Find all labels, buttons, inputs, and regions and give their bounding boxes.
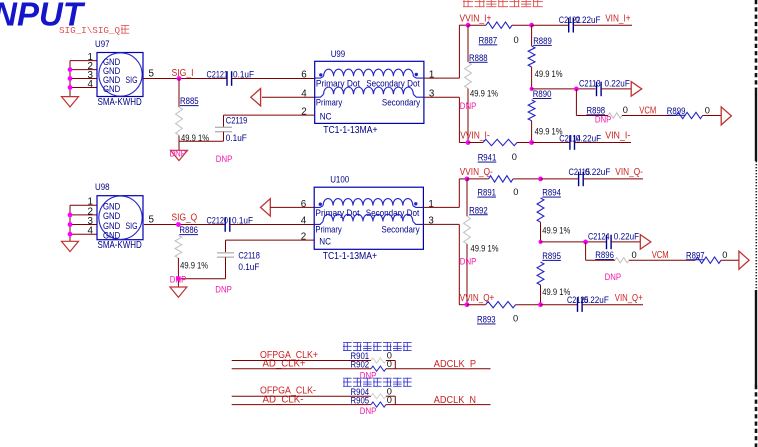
wire pin4 stub xyxy=(70,87,97,89)
wire ADCLK_P xyxy=(386,368,491,370)
note (chinese, cut off at top) xyxy=(463,0,473,7)
svg-text:2: 2 xyxy=(301,232,306,243)
svg-text:GND: GND xyxy=(103,221,121,231)
junction xyxy=(68,67,73,72)
svg-text:5: 5 xyxy=(149,215,155,226)
svg-text:U100: U100 xyxy=(330,175,349,186)
svg-text:0: 0 xyxy=(513,187,518,197)
svg-text:R895: R895 xyxy=(542,251,561,261)
svg-text:SIG_I: SIG_I xyxy=(172,68,194,79)
svg-text:0: 0 xyxy=(513,314,518,324)
node junction R887/R889 xyxy=(529,23,534,28)
svg-text:0.1uF: 0.1uF xyxy=(238,262,259,272)
resistor R887 0 xyxy=(468,22,532,45)
wire pin3 stub xyxy=(70,78,97,80)
junction xyxy=(68,76,73,81)
svg-text:R890: R890 xyxy=(533,89,552,99)
svg-text:49.9 1%: 49.9 1% xyxy=(180,261,208,271)
page border (dashed, right edge) xyxy=(755,0,758,89)
svg-text:C2124: C2124 xyxy=(588,232,610,242)
wire gnd bus xyxy=(69,205,71,241)
resistor R898 0 (DNP) xyxy=(587,105,628,118)
wire R897 to port xyxy=(721,259,739,261)
svg-text:SMA-KWHD: SMA-KWHD xyxy=(98,97,142,108)
resistor R885 49.9 1% (DNP) xyxy=(176,79,209,151)
node C2113 branch junction xyxy=(574,87,579,92)
wire bracket join xyxy=(394,396,396,404)
svg-text:R885: R885 xyxy=(180,96,199,106)
wire VIN_Q- xyxy=(583,178,643,180)
svg-text:DNP: DNP xyxy=(605,272,622,283)
node C2124 branch junction xyxy=(583,240,588,245)
body box xyxy=(97,53,143,97)
svg-text:0.22uF: 0.22uF xyxy=(584,295,610,305)
svg-text:6: 6 xyxy=(301,70,307,81)
wire VVIN_I+ to C2122 xyxy=(532,24,569,26)
wire SIG_I xyxy=(143,78,227,80)
svg-text:1: 1 xyxy=(428,199,433,210)
svg-text:0.22uF: 0.22uF xyxy=(605,79,631,89)
wire AD_CLK- xyxy=(232,404,371,406)
svg-text:R897: R897 xyxy=(686,250,705,260)
polarity dot left xyxy=(319,73,322,76)
svg-text:5: 5 xyxy=(149,69,155,80)
wire pin3 stub xyxy=(70,224,97,226)
resistor R901 0 (DNP) xyxy=(351,351,392,363)
svg-text:0: 0 xyxy=(512,152,517,162)
wire arrow to U99 pin4 xyxy=(262,96,315,98)
capacitor C2119 0.1uF (DNP shunt) xyxy=(215,115,247,143)
capacitor C2122 0.22uF xyxy=(568,18,570,33)
svg-text:VIN_I-: VIN_I- xyxy=(605,131,630,142)
svg-text:GND: GND xyxy=(103,231,121,241)
port arrow C2113 xyxy=(631,82,642,97)
wire OFPGA_CLK- xyxy=(232,395,371,397)
body box xyxy=(97,196,143,240)
junction xyxy=(68,222,73,227)
resistor R888 49.9 1% (DNP shunt) xyxy=(465,25,498,142)
junction xyxy=(68,85,73,90)
capacitor C2113 0.22uF xyxy=(596,82,598,97)
svg-text:DNP: DNP xyxy=(460,101,477,112)
capacitor C2124 0.22uF xyxy=(606,235,608,250)
note chinese (three stacked resistors) xyxy=(343,342,352,351)
svg-text:GND: GND xyxy=(103,211,121,221)
svg-text:3: 3 xyxy=(429,88,435,99)
node junction R895/VVIN_Q+ xyxy=(538,302,543,307)
wire R899 to port xyxy=(703,115,722,117)
capacitor C2121 0.1uF xyxy=(226,71,228,86)
svg-text:R888: R888 xyxy=(469,53,488,63)
node VVIN_Q- junction xyxy=(465,177,470,182)
wire ADCLK_N xyxy=(386,404,491,406)
node junction R891/R894 xyxy=(538,177,543,182)
svg-text:C2120: C2120 xyxy=(207,216,229,226)
svg-text:DNP: DNP xyxy=(170,149,187,160)
svg-text:VIN_Q-: VIN_Q- xyxy=(615,167,643,178)
resistor R896 0 (DNP) xyxy=(595,250,636,263)
svg-text:SIG: SIG xyxy=(126,221,138,231)
wire VVIN_I- to C2114 xyxy=(532,142,570,144)
resistor R905 0 xyxy=(351,395,392,407)
capacitor C2120 0.1uF xyxy=(224,217,226,232)
ground (DNP) below R886 xyxy=(170,287,187,297)
resistor R891 0 xyxy=(467,176,541,198)
svg-text:R892: R892 xyxy=(469,205,488,215)
wire C2113 to port xyxy=(601,88,631,90)
svg-text:C2121: C2121 xyxy=(207,70,229,80)
wire VCM branch I xyxy=(575,89,577,116)
wire R901 to bracket xyxy=(386,360,395,362)
winding bottom xyxy=(323,214,413,221)
wire R885 bottom to C2119 xyxy=(179,140,224,142)
svg-text:R905: R905 xyxy=(351,396,370,406)
resistor R941 0 xyxy=(468,139,532,162)
wire R886 bottom to C2118 xyxy=(178,278,225,280)
svg-text:U98: U98 xyxy=(95,182,110,193)
resistor R886 49.9 1% (DNP) xyxy=(175,225,208,287)
svg-text:DNP: DNP xyxy=(215,284,232,295)
svg-text:DNP: DNP xyxy=(216,154,233,165)
svg-text:4: 4 xyxy=(301,88,307,99)
wire C2121 to U99 pin6 xyxy=(232,78,315,80)
body box xyxy=(315,61,424,123)
port arrow VCM I xyxy=(721,107,731,125)
svg-text:6: 6 xyxy=(301,199,307,210)
svg-text:49.9 1%: 49.9 1% xyxy=(470,89,498,99)
resistor R894 49.9 1% xyxy=(537,188,570,242)
resistor R897 0 xyxy=(686,250,727,263)
svg-text:R894: R894 xyxy=(542,188,561,198)
resistor R895 49.9 1% xyxy=(537,251,570,305)
svg-text:R941: R941 xyxy=(478,153,497,163)
wire mid to C2113 xyxy=(532,88,596,90)
svg-text:NC: NC xyxy=(320,111,332,121)
svg-text:0: 0 xyxy=(623,105,628,115)
node SIG_Q junction xyxy=(176,222,181,227)
wire VVIN_Q- to C2115 xyxy=(541,178,579,180)
resistor R889 49.9 1% xyxy=(528,25,562,89)
wire VCM branch Q xyxy=(585,242,587,260)
svg-text:Secondary: Secondary xyxy=(382,98,420,108)
svg-text:0: 0 xyxy=(387,395,392,405)
svg-text:R891: R891 xyxy=(477,188,496,198)
svg-text:0.22uF: 0.22uF xyxy=(614,232,640,242)
svg-text:0: 0 xyxy=(514,35,519,45)
svg-text:0: 0 xyxy=(632,250,637,260)
wire C2120 to U100 pin4 xyxy=(230,224,314,226)
port arrow into U100 pin6 xyxy=(261,199,271,216)
wire gnd bus xyxy=(69,61,71,97)
svg-text:4: 4 xyxy=(88,79,94,90)
wire pin1 stub xyxy=(70,60,97,62)
svg-text:0.22uF: 0.22uF xyxy=(575,15,601,25)
resistor R890 49.9 1% xyxy=(528,89,562,143)
wire arrow to U100 pin6 xyxy=(270,206,314,208)
node junction R890/VVIN_I- xyxy=(529,140,534,145)
svg-text:TC1-1-13MA+: TC1-1-13MA+ xyxy=(323,251,378,262)
svg-text:0.1uF: 0.1uF xyxy=(226,133,247,143)
svg-text:GND: GND xyxy=(103,202,121,212)
body box xyxy=(314,187,423,249)
svg-text:Secondary: Secondary xyxy=(381,225,419,235)
svg-text:Primary: Primary xyxy=(315,225,342,235)
svg-text:Primary Dot: Primary Dot xyxy=(315,208,359,218)
wire U99 pin3 to VVIN_I- xyxy=(424,96,460,98)
svg-text:SIG_Q: SIG_Q xyxy=(172,213,198,224)
svg-text:VVIN_Q-: VVIN_Q- xyxy=(460,167,493,178)
wire R898 to R899 xyxy=(622,115,676,117)
svg-text:DNP: DNP xyxy=(460,256,477,267)
svg-text:C2113: C2113 xyxy=(579,79,601,89)
svg-text:R899: R899 xyxy=(667,106,686,116)
svg-text:U99: U99 xyxy=(331,49,346,60)
svg-text:VIN_Q+: VIN_Q+ xyxy=(615,293,643,304)
resistor R893 0 xyxy=(467,302,541,325)
node mid junction I xyxy=(530,87,534,91)
svg-text:SMA-KWHD: SMA-KWHD xyxy=(98,240,142,251)
connector U97 (SMA-KWHD) xyxy=(62,39,144,108)
capacitor C2118 0.1uF (DNP shunt) xyxy=(217,240,260,279)
node VVIN_Q+ junction xyxy=(465,302,470,307)
connector U98 (SMA-KWHD) xyxy=(62,182,144,251)
svg-text:DNP: DNP xyxy=(360,406,377,417)
capacitor C2115 0.22uF xyxy=(578,172,580,187)
node mid junction Q xyxy=(539,240,543,244)
svg-text:49.9 1%: 49.9 1% xyxy=(471,243,499,253)
svg-text:U97: U97 xyxy=(95,39,110,50)
wire VIN_I+ xyxy=(573,24,632,26)
wire AD_CLK+ xyxy=(232,368,371,370)
svg-text:DNP: DNP xyxy=(595,115,612,126)
wire pin1 stub xyxy=(70,204,97,206)
svg-text:3: 3 xyxy=(428,216,434,227)
wire VVIN_Q+ to C2125 xyxy=(541,304,578,306)
svg-text:VCM: VCM xyxy=(639,106,656,117)
capacitor C2125 0.22uF xyxy=(577,297,579,312)
svg-text:GND: GND xyxy=(103,84,121,94)
winding top xyxy=(323,199,413,206)
wire U99 pin1 to VVIN_I+ xyxy=(424,77,460,79)
polarity dot right xyxy=(414,202,417,205)
ground (DNP) below R885 xyxy=(171,150,188,160)
svg-text:C2118: C2118 xyxy=(238,250,260,260)
svg-text:R886: R886 xyxy=(179,225,198,235)
svg-text:C2119: C2119 xyxy=(226,116,248,126)
ground symbol xyxy=(62,97,79,107)
svg-text:SIG: SIG xyxy=(126,75,138,85)
svg-text:R893: R893 xyxy=(477,315,496,325)
svg-text:0: 0 xyxy=(705,105,710,115)
svg-text:DNP: DNP xyxy=(170,275,187,286)
wire SIG_Q xyxy=(144,224,225,226)
node SIG_I junction xyxy=(177,76,182,81)
wire VIN_I- xyxy=(575,142,632,144)
svg-text:4: 4 xyxy=(88,226,94,237)
svg-text:R896: R896 xyxy=(595,250,614,260)
wire U99 pin2 (NC) xyxy=(224,114,315,116)
junction xyxy=(68,213,73,218)
svg-text:49.9 1%: 49.9 1% xyxy=(542,226,570,236)
wire C2124 to port xyxy=(611,241,640,243)
transformer U100 (TC1-1-13MA+) xyxy=(301,175,435,262)
winding top xyxy=(324,69,414,76)
wire pin4 stub xyxy=(70,233,97,235)
node DNP junction xyxy=(176,276,181,281)
polarity dot left xyxy=(319,203,322,206)
wire R896 to R897 xyxy=(629,259,695,261)
wire VIN_Q+ xyxy=(582,304,643,306)
wire R904 to bracket xyxy=(386,395,395,397)
svg-text:0.22uF: 0.22uF xyxy=(585,167,611,177)
wire U100 pin3 to VVIN_Q+ xyxy=(423,223,459,225)
svg-text:Primary: Primary xyxy=(316,98,343,108)
note chinese (three stacked resistors) xyxy=(343,378,352,387)
transformer U99 (TC1-1-13MA+) xyxy=(301,49,435,136)
resistor R902 0 xyxy=(351,359,392,371)
svg-text:Secondary Dot: Secondary Dot xyxy=(366,79,420,89)
wire pin2 stub xyxy=(70,69,97,71)
port arrow C2124 xyxy=(640,235,651,250)
svg-text:TC1-1-13MA+: TC1-1-13MA+ xyxy=(323,125,378,136)
resistor R892 49.9 1% (DNP shunt) xyxy=(464,179,499,305)
svg-text:4: 4 xyxy=(301,216,307,227)
wire mid to C2124 xyxy=(541,241,607,243)
wire U100 pin1 to VVIN_Q- xyxy=(423,206,459,208)
port arrow VCM Q xyxy=(739,251,749,269)
svg-text:0.22uF: 0.22uF xyxy=(576,133,602,143)
svg-text:VVIN_I+: VVIN_I+ xyxy=(460,13,492,24)
svg-text:NC: NC xyxy=(319,236,331,246)
wire U100 pin2 (NC) xyxy=(226,239,315,241)
resistor R904 0 (DNP) xyxy=(351,386,392,398)
resistor R899 0 xyxy=(667,105,710,118)
node VVIN_I+ junction xyxy=(466,23,471,28)
svg-text:0: 0 xyxy=(722,250,727,260)
ground symbol xyxy=(62,241,79,251)
winding bottom xyxy=(324,87,414,94)
wire bracket join xyxy=(394,361,396,369)
svg-text:VCM: VCM xyxy=(652,250,669,261)
wire OFPGA_CLK+ xyxy=(232,360,371,362)
svg-text:VIN_I+: VIN_I+ xyxy=(605,13,631,24)
junction xyxy=(68,232,73,237)
svg-text:2: 2 xyxy=(301,107,306,118)
svg-text:SIG_I\SIG_Q: SIG_I\SIG_Q xyxy=(59,25,120,36)
wire pin2 stub xyxy=(70,214,97,216)
svg-text:R889: R889 xyxy=(533,36,552,46)
svg-text:49.9 1%: 49.9 1% xyxy=(535,69,563,79)
port arrow into U99 pin4 xyxy=(251,89,261,106)
svg-text:ADCLK_N: ADCLK_N xyxy=(434,395,476,406)
svg-text:ADCLK_P: ADCLK_P xyxy=(434,359,477,370)
svg-text:1: 1 xyxy=(429,70,434,81)
svg-text:R887: R887 xyxy=(479,35,498,45)
node VVIN_I- junction xyxy=(466,140,471,145)
svg-text:0: 0 xyxy=(387,359,392,369)
svg-text:R902: R902 xyxy=(351,360,370,370)
polarity dot right xyxy=(415,73,418,76)
capacitor C2114 0.22uF xyxy=(569,135,571,150)
